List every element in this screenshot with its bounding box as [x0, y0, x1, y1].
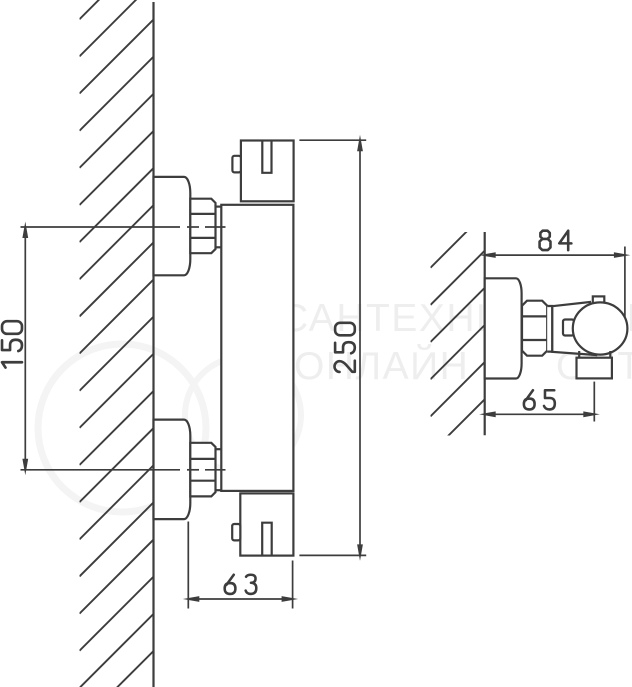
top nut facet line 2: [190, 237, 215, 239]
bottom connector washer: [216, 448, 222, 450]
left wall face line: [152, 2, 154, 687]
side view temp button: [563, 320, 574, 336]
side nut facet line 2: [521, 339, 547, 341]
bottom hex nut: [190, 443, 215, 497]
top control handle: [241, 141, 294, 202]
side view escutcheon: [485, 278, 522, 378]
side nut facet line 1: [521, 315, 547, 317]
dim250 arrow top: [357, 135, 363, 152]
bottom handle slot: [262, 523, 272, 556]
bottom nut facet line 1: [190, 458, 215, 460]
outlet connector lines: [578, 351, 580, 358]
top nut facet line 1: [190, 213, 215, 215]
dim84 extension right: [624, 247, 626, 320]
side view outlet block: [577, 358, 612, 379]
label 250: [335, 323, 355, 372]
bottom control handle: [240, 493, 293, 555]
top hex nut: [190, 199, 215, 254]
top handle slot: [262, 141, 271, 173]
label 84: [540, 231, 572, 250]
bottom handle side button: [232, 524, 240, 540]
top connector washer: [216, 206, 222, 208]
dimension 65 line: [485, 413, 595, 415]
top handle side button: [232, 156, 241, 173]
wall (right, hatched): [431, 176, 485, 527]
mixer body (front view): [221, 205, 293, 491]
dim150 arrow bottom: [22, 459, 28, 476]
dimension 63 line: [188, 598, 292, 600]
dim63 arrow right: [282, 596, 299, 602]
label 150: [2, 321, 22, 367]
dim250 extension bottom: [299, 554, 366, 556]
top inlet escutcheon: [154, 177, 191, 275]
bottom inlet escutcheon: [154, 420, 191, 519]
bottom nut facet line 2: [190, 480, 215, 482]
dim65 arrow left: [479, 411, 496, 417]
dim63 extension right: [292, 561, 294, 609]
label 63: [225, 575, 257, 594]
dimension 150 line: [24, 227, 26, 470]
dim84 arrow right: [614, 252, 631, 258]
dimension 84 line: [485, 254, 625, 256]
dim84 arrow left: [479, 252, 496, 258]
side view hex nut: [522, 301, 547, 356]
side view knob circle: [573, 302, 628, 354]
watermark: [38, 344, 301, 512]
bottom inlet centerline: [21, 469, 181, 471]
label 65: [524, 390, 555, 409]
right wall face line: [484, 232, 486, 435]
dim250 extension top: [299, 139, 366, 141]
dimension 250 line: [359, 140, 361, 555]
side view neck: [547, 306, 552, 352]
dim65 extension right: [593, 382, 595, 422]
top inlet centerline: [21, 226, 181, 228]
side view valve body: [552, 302, 596, 355]
side view top stop tab: [593, 296, 605, 304]
dim65 arrow right: [583, 411, 600, 417]
dim63 arrow left: [183, 596, 200, 602]
dim250 arrow bottom: [357, 544, 363, 561]
dim150 arrow top: [22, 222, 28, 239]
dim63 extension left: [187, 522, 189, 609]
